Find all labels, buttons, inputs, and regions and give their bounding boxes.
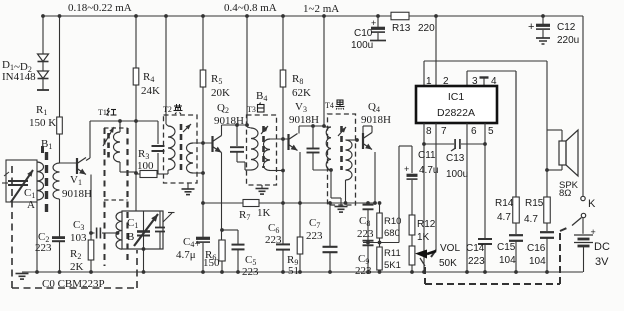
svg-text:4.7: 4.7: [497, 212, 511, 223]
svg-text:3: 3: [472, 76, 478, 87]
svg-text:220u: 220u: [557, 35, 579, 46]
svg-text:20K: 20K: [211, 87, 230, 99]
svg-text:K: K: [588, 198, 596, 210]
svg-text:C10: C10: [354, 28, 373, 39]
svg-text:R12: R12: [417, 219, 436, 230]
svg-text:5: 5: [488, 126, 494, 137]
svg-text:223: 223: [357, 228, 374, 240]
svg-text:D2822A: D2822A: [437, 107, 475, 119]
svg-text:24K: 24K: [141, 85, 160, 97]
svg-text:0.4~0.8 mA: 0.4~0.8 mA: [224, 2, 277, 14]
svg-text:T3: T3: [247, 105, 256, 114]
svg-text:103: 103: [70, 232, 87, 244]
svg-text:1~2 mA: 1~2 mA: [303, 3, 339, 15]
svg-text:+: +: [404, 164, 409, 174]
svg-text:R14: R14: [495, 198, 514, 209]
svg-text:4: 4: [491, 76, 497, 87]
svg-text:A: A: [27, 199, 35, 211]
svg-text:R11: R11: [384, 248, 401, 259]
svg-text:C0 CBM223P: C0 CBM223P: [42, 278, 105, 290]
svg-text:223: 223: [355, 265, 372, 277]
svg-text:6: 6: [471, 126, 477, 137]
svg-text:T2: T2: [163, 105, 172, 114]
svg-text:104: 104: [499, 255, 516, 266]
svg-text:B: B: [127, 231, 134, 243]
svg-text:8: 8: [426, 126, 432, 137]
svg-text:220: 220: [418, 23, 435, 34]
svg-text:150: 150: [203, 257, 220, 269]
svg-text:223: 223: [468, 256, 485, 267]
svg-text:C13: C13: [446, 153, 465, 164]
svg-text:C14: C14: [466, 243, 485, 254]
svg-text:100u: 100u: [446, 169, 468, 180]
svg-text:T4: T4: [325, 101, 334, 110]
svg-text:4.7u: 4.7u: [419, 165, 438, 176]
svg-text:9018H: 9018H: [289, 114, 319, 126]
svg-text:R15: R15: [525, 198, 544, 209]
svg-text:100: 100: [137, 160, 154, 172]
svg-text:DC: DC: [594, 241, 610, 253]
svg-text:62K: 62K: [292, 87, 311, 99]
svg-text:0.18~0.22 mA: 0.18~0.22 mA: [68, 2, 132, 14]
svg-text:9018H: 9018H: [361, 114, 391, 126]
svg-text:8Ω: 8Ω: [559, 188, 571, 199]
svg-text:51: 51: [288, 265, 299, 277]
svg-text:VOL: VOL: [440, 243, 460, 254]
svg-text:7: 7: [441, 126, 447, 137]
svg-text:100u: 100u: [351, 40, 373, 51]
svg-text:IC1: IC1: [448, 91, 465, 103]
svg-text:50K: 50K: [439, 258, 457, 269]
svg-text:1K: 1K: [417, 232, 430, 243]
svg-text:680: 680: [384, 228, 400, 239]
svg-text:T1: T1: [98, 108, 107, 117]
svg-text:4.7: 4.7: [524, 214, 538, 225]
svg-text:C15: C15: [497, 242, 516, 253]
svg-text:223: 223: [242, 266, 259, 278]
svg-text:2K: 2K: [70, 261, 84, 273]
svg-text:5K1: 5K1: [384, 260, 401, 271]
svg-text:+: +: [371, 18, 376, 28]
svg-text:1K: 1K: [257, 207, 271, 219]
svg-text:3V: 3V: [595, 256, 609, 268]
svg-text:223: 223: [306, 230, 323, 242]
svg-text:C12: C12: [557, 22, 576, 33]
svg-text:IN4148: IN4148: [2, 71, 36, 83]
svg-text:104: 104: [529, 256, 546, 267]
svg-text:4.7μ: 4.7μ: [176, 249, 196, 261]
svg-text:R13: R13: [392, 23, 411, 34]
svg-text:223: 223: [265, 234, 282, 246]
svg-text:9018H: 9018H: [62, 188, 92, 200]
svg-text:1: 1: [426, 76, 432, 87]
svg-text:150 K: 150 K: [29, 117, 56, 129]
svg-text:C16: C16: [527, 243, 546, 254]
svg-text:2: 2: [443, 76, 449, 87]
svg-text:C11: C11: [418, 150, 436, 161]
svg-text:+: +: [528, 21, 534, 33]
